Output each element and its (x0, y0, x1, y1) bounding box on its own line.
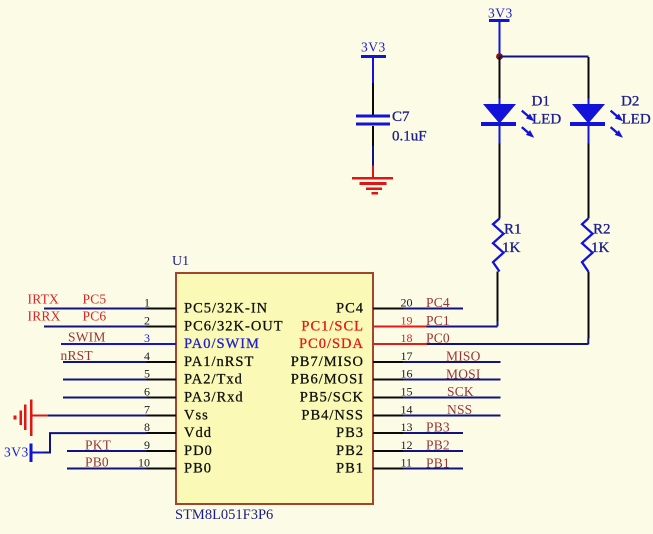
svg-text:PB1: PB1 (336, 461, 364, 477)
svg-text:8: 8 (144, 420, 150, 434)
svg-text:11: 11 (401, 456, 413, 470)
svg-text:PB0: PB0 (184, 461, 212, 477)
svg-text:3V3: 3V3 (361, 40, 386, 55)
svg-text:4: 4 (144, 349, 150, 363)
svg-text:5: 5 (144, 367, 150, 381)
wire gnd to pin 7 (48, 414, 147, 416)
svg-text:PA0/SWIM: PA0/SWIM (184, 336, 260, 352)
svg-text:MOSI: MOSI (446, 366, 481, 381)
resistor R2 1K (582, 219, 611, 272)
svg-text:10: 10 (138, 456, 150, 470)
svg-text:16: 16 (401, 367, 413, 381)
svg-text:14: 14 (401, 402, 413, 416)
svg-text:6: 6 (144, 385, 150, 399)
svg-text:1: 1 (144, 296, 150, 310)
pin 18 PC0/SDA (299, 331, 427, 352)
svg-text:NSS: NSS (447, 402, 472, 417)
svg-text:3V3: 3V3 (4, 445, 29, 460)
svg-text:PC0: PC0 (426, 331, 450, 346)
wire net PC0 from pin 18 up to R2 (426, 272, 588, 346)
svg-text:PC1: PC1 (426, 313, 450, 328)
wire net PKT to pin 9 (67, 437, 147, 452)
svg-text:13: 13 (401, 420, 413, 434)
pin 16 PB6/MOSI (291, 367, 413, 388)
LED D1 (481, 94, 561, 144)
svg-text:PC0/SDA: PC0/SDA (299, 336, 364, 352)
svg-text:20: 20 (401, 296, 413, 310)
pin 12 PB2 (336, 438, 413, 459)
svg-text:PKT: PKT (85, 437, 112, 452)
svg-text:3: 3 (144, 331, 150, 345)
svg-text:C7: C7 (392, 109, 410, 125)
svg-text:PC6/32K-OUT: PC6/32K-OUT (184, 318, 284, 334)
pin 2 PC6/32K-OUT (144, 313, 284, 334)
pin 11 PB1 (336, 456, 412, 477)
svg-text:12: 12 (401, 438, 413, 452)
wire 3V3 to pin 8 Vdd (44, 433, 147, 452)
pin 7 Vss (144, 402, 209, 423)
svg-text:D1: D1 (532, 94, 550, 110)
svg-text:U1: U1 (172, 254, 189, 269)
ground symbol below C7 (352, 166, 393, 194)
svg-text:D2: D2 (621, 94, 639, 110)
svg-text:PB2: PB2 (336, 443, 364, 459)
svg-text:PC5: PC5 (83, 291, 107, 306)
svg-text:IRTX: IRTX (28, 291, 60, 306)
svg-text:PA2/Txd: PA2/Txd (184, 372, 243, 388)
pin 6 PA3/Rxd (144, 385, 244, 406)
pin 8 Vdd (144, 420, 212, 441)
wire net SCK (403, 384, 501, 399)
wire net PB0 to pin 10 (67, 455, 147, 470)
wire net PB1 (403, 455, 463, 470)
svg-text:SWIM: SWIM (68, 330, 106, 345)
svg-text:nRST: nRST (61, 348, 94, 363)
wire net PC1 from pin 19 up to R1 (426, 272, 498, 328)
svg-text:PC4: PC4 (426, 295, 450, 310)
svg-text:PC4: PC4 (336, 301, 364, 317)
svg-text:PB0: PB0 (85, 455, 109, 470)
ground symbol at Vss (15, 400, 48, 436)
svg-text:PC6: PC6 (83, 308, 107, 323)
svg-text:PB5/SCK: PB5/SCK (300, 390, 364, 406)
svg-text:1K: 1K (502, 240, 521, 256)
svg-text:PB2: PB2 (426, 438, 450, 453)
svg-text:PD0: PD0 (184, 443, 213, 459)
wire net IRRX to pin 2 (28, 308, 147, 326)
op-amp U1 body (IC STM8L051F3P6) (176, 273, 373, 504)
wire net NSS (403, 402, 501, 417)
svg-text:PC1/SCL: PC1/SCL (301, 318, 364, 334)
pin 20 PC4 (336, 296, 413, 317)
pin 9 PD0 (144, 438, 213, 459)
svg-text:STM8L051F3P6: STM8L051F3P6 (175, 507, 273, 523)
svg-text:1K: 1K (591, 240, 610, 256)
pin 4 PA1/nRST (144, 349, 254, 370)
svg-text:LED: LED (622, 112, 651, 128)
pin 10 PB0 (138, 456, 212, 477)
svg-text:PB1: PB1 (426, 455, 450, 470)
wire pin 5 (63, 379, 147, 381)
wire net PB2 (403, 438, 463, 453)
svg-text:MISO: MISO (446, 349, 481, 364)
LED D2 (570, 94, 651, 144)
pin 13 PB3 (336, 420, 413, 441)
wire net PC4 from pin 20 (403, 295, 463, 310)
svg-text:3V3: 3V3 (488, 6, 513, 21)
svg-text:R2: R2 (593, 221, 611, 237)
pin 1 PC5/32K-IN (144, 296, 268, 317)
power symbol 3V3 left (4, 443, 44, 462)
pin 3 PA0/SWIM (61, 331, 260, 352)
wire D2 to R2 (587, 144, 589, 219)
pin 14 PB4/NSS (301, 402, 412, 423)
svg-text:PA3/Rxd: PA3/Rxd (184, 390, 244, 406)
wire net MOSI (403, 366, 501, 381)
svg-text:Vdd: Vdd (184, 425, 212, 441)
svg-text:PA1/nRST: PA1/nRST (184, 354, 254, 370)
svg-text:PB3: PB3 (336, 425, 364, 441)
svg-text:IRRX: IRRX (28, 308, 61, 323)
svg-text:0.1uF: 0.1uF (392, 129, 427, 145)
power symbol 3V3 above C7 (361, 40, 386, 84)
svg-text:PC5/32K-IN: PC5/32K-IN (184, 301, 268, 317)
svg-text:7: 7 (144, 402, 150, 416)
svg-text:17: 17 (401, 349, 413, 363)
svg-text:PB7/MISO: PB7/MISO (291, 354, 364, 370)
pin 17 PB7/MISO (291, 349, 413, 370)
wire net MISO (403, 349, 501, 364)
svg-text:PB4/NSS: PB4/NSS (301, 407, 364, 423)
wire net nRST to pin 4 (61, 348, 147, 363)
svg-text:PB3: PB3 (426, 420, 450, 435)
svg-text:Vss: Vss (184, 407, 209, 423)
junction node (496, 53, 503, 60)
pin 19 PC1/SCL (301, 313, 426, 334)
wire 3V3 rail to D2 branch (500, 56, 589, 58)
wire junction to D1 (499, 57, 501, 99)
svg-text:9: 9 (144, 438, 150, 452)
svg-text:LED: LED (532, 112, 561, 128)
wire net PB3 (403, 420, 463, 435)
power symbol 3V3 above LEDs (488, 6, 513, 54)
svg-text:2: 2 (144, 313, 150, 327)
resistor R1 1K (493, 219, 522, 272)
svg-text:PB6/MOSI: PB6/MOSI (291, 372, 364, 388)
capacitor C7 0.1uF (356, 109, 427, 145)
svg-text:19: 19 (401, 313, 413, 327)
svg-text:15: 15 (401, 385, 413, 399)
wire D1 to R1 (499, 144, 501, 219)
pin 15 PB5/SCK (300, 385, 413, 406)
wire pin 6 (63, 397, 147, 399)
wire 3V3 to C7 (372, 83, 374, 115)
svg-text:18: 18 (401, 331, 413, 345)
pin 5 PA2/Txd (144, 367, 243, 388)
wire net IRTX to pin 1 (28, 291, 147, 308)
svg-text:SCK: SCK (447, 384, 474, 399)
wire junction rail corner to D2 (587, 57, 589, 99)
svg-text:R1: R1 (504, 221, 522, 237)
wire C7 to ground (372, 126, 374, 166)
